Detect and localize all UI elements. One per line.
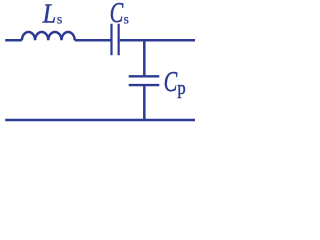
capacitor Cp xyxy=(129,76,160,85)
label Cs xyxy=(110,0,129,29)
label Ls xyxy=(42,0,62,29)
inductor Ls xyxy=(22,32,75,40)
svg-text:C: C xyxy=(164,67,178,98)
label Cp xyxy=(164,67,186,99)
capacitor Cs xyxy=(112,24,119,56)
wire W4: junction vertical drop to Cp xyxy=(143,40,146,75)
svg-text:s: s xyxy=(124,13,129,28)
svg-text:L: L xyxy=(42,0,56,29)
wire W3: Cs to right end xyxy=(120,39,195,42)
svg-text:C: C xyxy=(110,0,124,29)
wire W5: Cp to bottom rail xyxy=(143,86,146,120)
wire W2: inductor to Cs xyxy=(75,39,111,42)
wire W6: bottom rail xyxy=(5,119,195,122)
svg-text:p: p xyxy=(177,79,185,99)
svg-text:s: s xyxy=(57,13,62,28)
wire W1: top-left segment xyxy=(5,39,22,42)
